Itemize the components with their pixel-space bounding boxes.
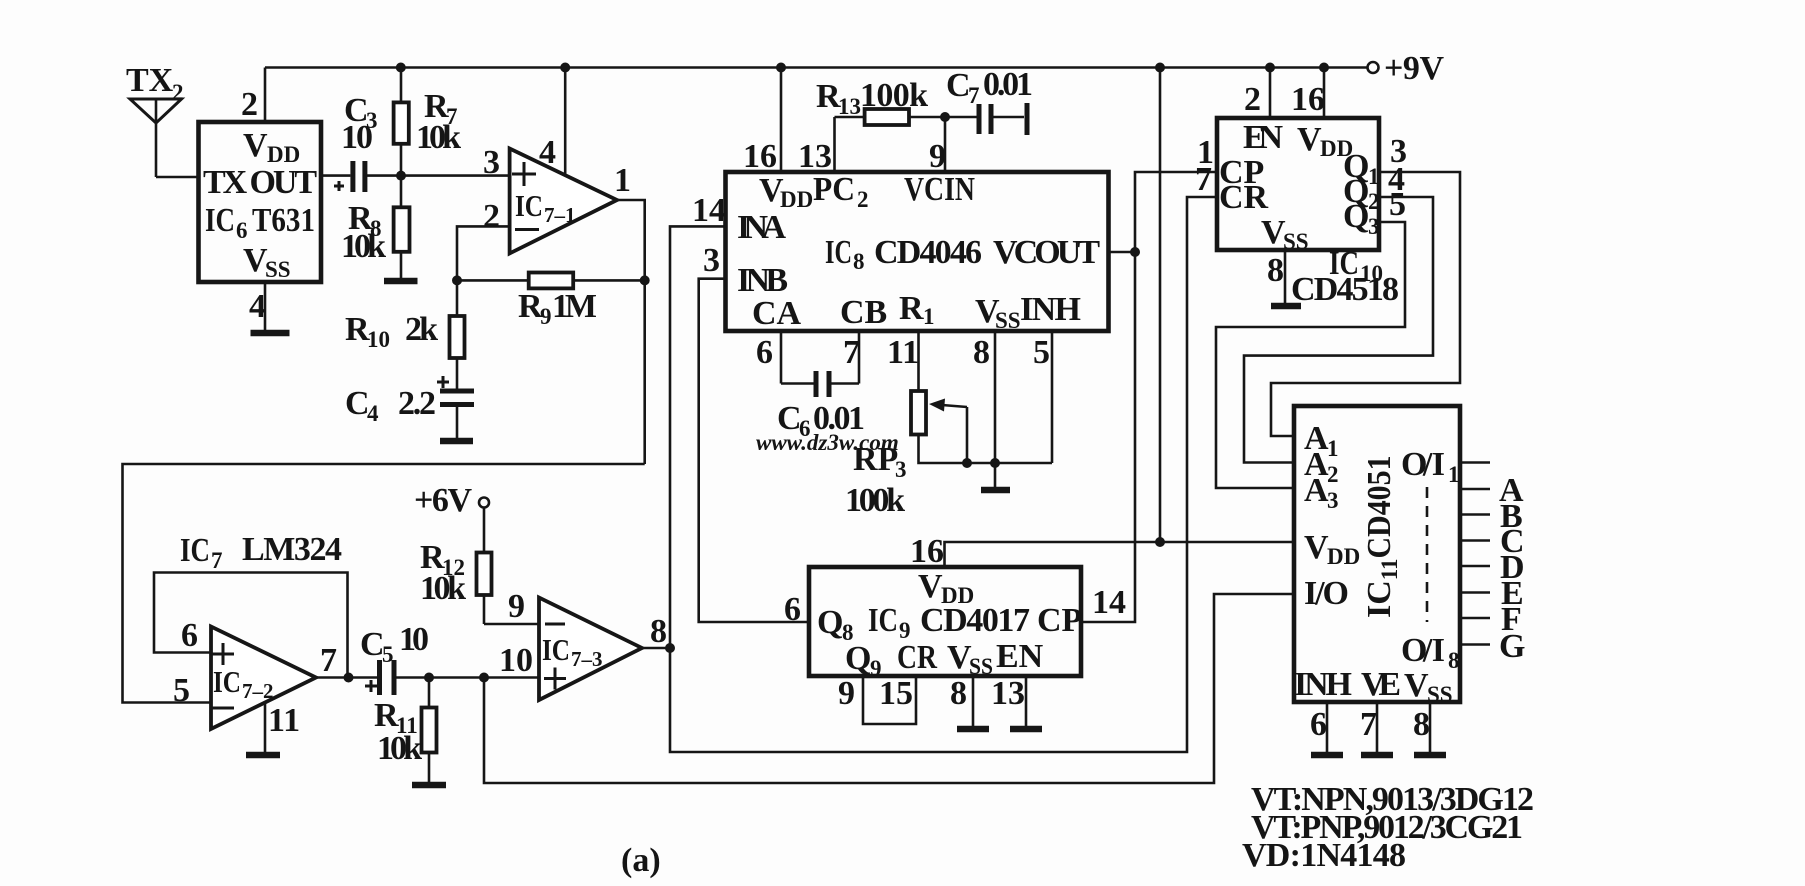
note VD: [1242, 837, 1406, 874]
label G: [1499, 628, 1525, 665]
pin stub F: [1460, 617, 1490, 620]
svg-text:11: 11: [887, 334, 919, 371]
capacitor C7: [945, 103, 1027, 135]
svg-text:7–3: 7–3: [571, 647, 603, 671]
wire pin 4 of IC7-1 to rail: [564, 68, 567, 177]
svg-text:IC: IC: [868, 602, 898, 639]
svg-text:1: 1: [1327, 436, 1339, 461]
label CB: [840, 294, 887, 331]
wire IC7-2 output to C5: [316, 676, 377, 679]
svg-text:SS: SS: [1283, 229, 1309, 254]
label O/I1: [1401, 446, 1460, 487]
wire IC11 pin 7 VE down: [1376, 702, 1379, 755]
ground under IC11 pin 6: [1311, 752, 1343, 759]
svg-text:11: 11: [268, 702, 300, 739]
resistor R7: [394, 68, 409, 176]
node H junction dot R13/C7/VCIN: [940, 112, 950, 122]
svg-text:7: 7: [1360, 706, 1377, 743]
label O/I8: [1401, 632, 1460, 673]
wire INB net: IC8 pin3 to CD4017 Q8: [699, 279, 809, 622]
svg-text:SS: SS: [265, 257, 291, 282]
label A: [1499, 472, 1524, 509]
pin number 5 (IC7-2): [173, 672, 190, 709]
wire pin 11 of IC7-2 down: [264, 703, 267, 755]
svg-text:10k: 10k: [420, 570, 466, 607]
pin number 7 (IC11): [1360, 706, 1377, 743]
svg-text:2: 2: [483, 198, 500, 235]
wire IC7-3 output: [642, 647, 670, 650]
wire Q3 to A3 of CD4051: [1216, 222, 1405, 488]
svg-text:V: V: [1297, 121, 1322, 158]
pin number 5 (IC8): [1033, 334, 1050, 371]
label E: [1501, 575, 1524, 612]
IC U6 T631 box: [199, 122, 322, 282]
svg-text:CR: CR: [1219, 179, 1269, 216]
svg-text:1: 1: [614, 162, 631, 199]
pin number 11 (IC8): [887, 334, 919, 371]
svg-text:16: 16: [1291, 81, 1325, 118]
pin number 7 (IC7-2): [320, 642, 337, 679]
wire CD4017 EN down: [1025, 676, 1028, 729]
wire R12 to IC7-3 pin 9: [484, 623, 539, 626]
ground under IC11 pin 7: [1361, 752, 1393, 759]
label VDD of IC8: [759, 172, 813, 212]
label PC2: [813, 171, 869, 212]
node J junction dot VSS: [990, 458, 1000, 468]
svg-text:CB: CB: [840, 294, 887, 331]
label D: [1500, 549, 1525, 586]
svg-text:IC: IC: [205, 202, 235, 239]
wire CD4518 VSS pin 8 down: [1284, 250, 1287, 306]
svg-text:0.01: 0.01: [983, 66, 1033, 103]
svg-text:7: 7: [320, 642, 337, 679]
ground under CD4518 pin 8: [1271, 303, 1301, 310]
svg-text:3: 3: [703, 242, 720, 279]
svg-text:8: 8: [853, 249, 865, 274]
ground under IC11 pin 8: [1414, 752, 1446, 759]
pin number 4 (IC6): [249, 288, 266, 325]
wire +9V drop to VDD net: [1159, 68, 1162, 543]
label VDD of IC10: [1297, 121, 1353, 161]
label VSS of IC6: [243, 242, 291, 282]
svg-text:7–1: 7–1: [544, 203, 576, 227]
resistor R9: [457, 273, 645, 289]
label IC9 CD4017 CP: [868, 602, 1082, 643]
ground under CD4017 EN: [1010, 726, 1042, 733]
wire Q9-CR loop: [863, 676, 916, 724]
node L junction dot VDD net: [1155, 537, 1165, 547]
resistor R8: [394, 176, 410, 281]
note VT NPN: [1251, 781, 1534, 818]
pin number 9 (IC7-3): [508, 588, 525, 625]
svg-text:2: 2: [1327, 462, 1339, 487]
wire IC8 pin 13 up: [833, 117, 836, 172]
label VSS of IC8: [975, 293, 1021, 333]
svg-text:6: 6: [756, 334, 773, 371]
svg-text:IC11CD4051: IC11CD4051: [1361, 455, 1402, 618]
label B: [1500, 498, 1523, 535]
svg-text:3: 3: [1327, 488, 1339, 513]
svg-text:www.dz3w.com: www.dz3w.com: [756, 430, 899, 455]
svg-text:8: 8: [650, 613, 667, 650]
pin number 14 (IC8): [692, 192, 726, 229]
capacitor C3: [334, 161, 365, 192]
ground under IC7-2 pin 11: [246, 752, 280, 759]
wire pin 4 of IC6 down: [264, 282, 267, 333]
node I junction dot wiper: [962, 458, 972, 468]
pin stub O/I1: [1460, 461, 1490, 464]
label IC7-3: [542, 632, 603, 671]
svg-text:5: 5: [173, 672, 190, 709]
svg-text:2k: 2k: [405, 311, 438, 348]
pin number 6 (IC11): [1310, 706, 1327, 743]
svg-text:I/O: I/O: [1304, 575, 1349, 612]
resistor R10: [450, 280, 465, 391]
IC U11 CD4051 box: [1294, 406, 1460, 702]
svg-text:10k: 10k: [377, 730, 422, 767]
svg-text:1: 1: [1448, 462, 1460, 487]
label INH of IC11: [1294, 666, 1352, 703]
svg-text:LM324: LM324: [242, 531, 342, 568]
pin number 3 (IC7-1): [483, 144, 500, 181]
wire IC8 pin 7 CB down: [858, 331, 861, 384]
junction dot rail/R7: [396, 63, 406, 73]
label VDD of IC6: [243, 127, 300, 167]
node F junction dot I/O branch: [479, 673, 489, 683]
svg-text:100k: 100k: [860, 77, 928, 114]
label A2: [1304, 446, 1339, 487]
pin number 6 (IC8): [756, 334, 773, 371]
label R1 pin: [899, 290, 935, 329]
svg-text:PC: PC: [813, 171, 855, 208]
svg-text:INA: INA: [737, 209, 786, 246]
ground under IC6 pin 4: [251, 330, 290, 337]
wire IC7-1 output feedback loop to IC7-2 pin 5: [123, 464, 645, 703]
label R9 1M: [518, 288, 597, 329]
svg-text:G: G: [1499, 628, 1525, 665]
label F: [1501, 601, 1522, 638]
svg-text:6: 6: [236, 218, 248, 243]
label IC8 CD4046 VCOUT: [825, 234, 1100, 274]
label A1: [1304, 420, 1339, 461]
pin number 2 (IC10): [1244, 81, 1261, 118]
label VDD of IC11: [1304, 529, 1360, 569]
wire CP net: CD4518 CP / VCOUT / CD4017 CP: [1081, 172, 1217, 622]
svg-text:R: R: [899, 290, 924, 327]
svg-text:IC: IC: [213, 664, 241, 699]
svg-text:1M: 1M: [552, 288, 597, 325]
svg-text:V: V: [918, 568, 943, 605]
wire pin 2 of IC7-1: [457, 226, 510, 280]
wire TX OUT to C3: [321, 174, 350, 177]
svg-text:15: 15: [879, 675, 913, 712]
note VT PNP: [1251, 809, 1523, 846]
svg-text:C: C: [360, 626, 385, 663]
svg-text:DD: DD: [1327, 544, 1360, 569]
svg-text:5: 5: [1033, 334, 1050, 371]
wire +9V supply rail: [265, 66, 1368, 69]
wire VCOUT output: [1109, 251, 1135, 254]
label RP3 100k: [845, 441, 907, 519]
label TX2: [126, 62, 184, 105]
junction dot rail/pin16: [1319, 63, 1329, 73]
label VCIN: [904, 171, 975, 208]
wire CD4017 VSS down: [972, 676, 975, 729]
dashed separator line inside IC11: [1426, 487, 1429, 622]
label Q2: [1343, 173, 1380, 214]
pin stub E: [1460, 591, 1490, 594]
label R11 10k: [374, 697, 422, 767]
svg-text:C: C: [345, 385, 370, 422]
label R12 10k: [420, 539, 466, 607]
label VE: [1361, 666, 1401, 703]
label Q3: [1343, 198, 1380, 239]
node B junction dot R9 left: [452, 275, 462, 285]
label I/O: [1304, 575, 1349, 612]
svg-text:6: 6: [181, 617, 198, 654]
svg-text:2: 2: [1244, 81, 1261, 118]
resistor R12: [477, 508, 492, 625]
svg-text:9: 9: [929, 138, 946, 175]
svg-text:V: V: [243, 127, 268, 164]
svg-text:13: 13: [991, 675, 1025, 712]
junction dot rail/pin2: [1265, 63, 1275, 73]
wire CD4518 pin 16 to rail: [1323, 68, 1326, 119]
svg-text:9: 9: [540, 304, 552, 329]
pin number 9 (IC9): [838, 675, 855, 712]
ground under R8: [384, 278, 418, 285]
junction dot rail/pin4: [560, 63, 570, 73]
svg-text:A: A: [1304, 472, 1329, 509]
pin number 4 (IC10): [1388, 161, 1405, 198]
svg-text:+6V: +6V: [414, 482, 472, 519]
label IC11CD4051 rotated: [1361, 455, 1402, 618]
IC U8 CD4046 box: [726, 172, 1109, 331]
pin number 10 (IC7-3): [499, 642, 533, 679]
svg-text:10: 10: [499, 642, 533, 679]
svg-text:Q: Q: [845, 640, 871, 677]
svg-text:16: 16: [910, 533, 944, 570]
label INB: [737, 262, 788, 299]
svg-text:V: V: [1404, 667, 1429, 704]
label VSS of IC10: [1261, 214, 1309, 254]
pin stub C: [1460, 539, 1490, 542]
wire CD4518 pin 2 to rail: [1269, 68, 1272, 119]
svg-text:DD: DD: [780, 187, 813, 212]
wire IC8 pin 11 R1 down: [917, 331, 920, 391]
pin number 8 (IC10): [1267, 252, 1284, 289]
wire IC11 pin 8 VSS down: [1429, 702, 1432, 755]
label IC7-1: [515, 188, 576, 227]
svg-text:INH: INH: [1020, 291, 1081, 328]
+6V terminal: [479, 498, 489, 508]
label Q1: [1343, 148, 1380, 189]
pin number 7 (IC8): [843, 334, 860, 371]
ground under RP3/VSS: [981, 487, 1010, 494]
pin number 1 (IC7-1): [614, 162, 631, 199]
ground under R11: [412, 782, 446, 789]
svg-text:CA: CA: [752, 295, 802, 332]
svg-text:INB: INB: [737, 262, 788, 299]
label VSS of IC11: [1404, 667, 1453, 707]
junction dot rail/+9V drop: [1155, 63, 1165, 73]
svg-text:CD4017: CD4017: [920, 602, 1030, 639]
wire IC7-1 output: [617, 200, 645, 464]
wire Q1 to A1 of CD4051: [1271, 172, 1460, 436]
svg-text:6: 6: [1310, 706, 1327, 743]
label IC10 CD4518: [1291, 245, 1399, 308]
svg-text:8: 8: [950, 675, 967, 712]
svg-text:1: 1: [1368, 164, 1380, 189]
capacitor C4 polarized: [437, 376, 474, 441]
svg-text:16: 16: [743, 138, 777, 175]
label EN of IC9: [996, 638, 1044, 675]
svg-text:EN: EN: [1243, 119, 1283, 156]
node E junction dot R11 top: [424, 673, 434, 683]
wire VDD net: CD4017 pin16 to CD4051 VDD: [945, 542, 1295, 567]
svg-text:13: 13: [798, 138, 832, 175]
label CR of IC9: [897, 639, 937, 676]
pin number 8 (IC8): [973, 334, 990, 371]
pin number 6 (IC7-2): [181, 617, 198, 654]
resistor R11: [422, 678, 437, 786]
pin number 1 (IC10): [1197, 134, 1214, 171]
label INH of IC8: [1020, 291, 1081, 328]
pin number 16 (IC8): [743, 138, 777, 175]
svg-text:C: C: [946, 67, 971, 104]
label EN of IC10: [1243, 119, 1283, 156]
svg-text:4: 4: [539, 134, 556, 171]
label R10 2k: [345, 311, 438, 352]
junction dot rail/IC8 pin16: [776, 63, 786, 73]
svg-text:14: 14: [692, 192, 726, 229]
pin number 4 (IC7-1): [539, 134, 556, 171]
svg-text:8: 8: [973, 334, 990, 371]
label Q8: [817, 604, 854, 645]
label C7 0.01: [946, 66, 1033, 108]
node D junction dot IC7-2 output: [344, 673, 354, 683]
op-amp IC7-3: [539, 598, 642, 701]
label CR of IC10: [1219, 179, 1269, 216]
svg-text:IC: IC: [542, 632, 570, 667]
pin number 16 (IC10): [1291, 81, 1325, 118]
op-amp IC7-2: [211, 627, 316, 730]
svg-text:3: 3: [483, 144, 500, 181]
svg-text:8: 8: [1267, 252, 1284, 289]
wire C5 to IC7-3 pin 10: [397, 676, 540, 679]
pin stub A: [1460, 488, 1490, 491]
svg-text:7: 7: [843, 334, 860, 371]
op-amp IC7-1: [510, 149, 617, 254]
wire IC8 pin 8 VSS down: [994, 331, 997, 490]
svg-text:3: 3: [895, 457, 907, 482]
svg-text:CP: CP: [1037, 602, 1082, 639]
svg-text:SS: SS: [995, 308, 1021, 333]
svg-text:+9V: +9V: [1384, 50, 1444, 87]
pin number 14 (IC9): [1092, 584, 1126, 621]
svg-text:7: 7: [211, 548, 223, 573]
label CP of IC10: [1219, 154, 1264, 191]
label IC7 LM324: [180, 531, 342, 573]
svg-text:10: 10: [399, 621, 429, 658]
label C5 10: [360, 621, 429, 667]
svg-text:SS: SS: [969, 654, 993, 679]
svg-text:10: 10: [367, 327, 390, 352]
wire IC11 pin 6 INH down: [1326, 702, 1329, 755]
svg-text:100k: 100k: [845, 482, 905, 519]
svg-text:10: 10: [341, 119, 373, 156]
svg-text:8: 8: [1413, 706, 1430, 743]
svg-text:5: 5: [382, 642, 394, 667]
svg-text:O/ I: O/ I: [1401, 446, 1445, 483]
svg-text:VD:1N4148: VD:1N4148: [1242, 837, 1406, 874]
svg-text:1: 1: [923, 304, 935, 329]
label VDD of IC9: [918, 568, 974, 608]
wire node A to op-amp pin 3: [401, 174, 510, 177]
+9V terminal circle: [1368, 62, 1379, 73]
label (a): [621, 842, 661, 879]
svg-text:IC: IC: [180, 532, 210, 569]
pin number 16 (IC9): [910, 533, 944, 570]
node K junction dot VCOUT: [1130, 247, 1140, 257]
wire antenna to IC6 TX OUT: [156, 176, 199, 179]
svg-text:TX: TX: [126, 62, 174, 99]
pin number 9 (IC8): [929, 138, 946, 175]
svg-text:T631: T631: [252, 202, 315, 239]
pin number 13 (IC9): [991, 675, 1025, 712]
wire INA net: IC8 pin14 / IC7-3 output / CD4518 CR: [670, 197, 1217, 752]
wire IC8 pin 6 CA down: [780, 331, 783, 384]
svg-text:EN: EN: [996, 638, 1044, 675]
pin number 8 (IC11): [1413, 706, 1430, 743]
svg-text:4: 4: [249, 288, 266, 325]
antenna TX2: [130, 99, 182, 177]
svg-text:VCOUT: VCOUT: [993, 234, 1100, 271]
svg-text:2: 2: [241, 86, 258, 123]
svg-text:7–2: 7–2: [242, 679, 274, 703]
pin number 3 (IC8): [703, 242, 720, 279]
label Q9: [845, 640, 882, 681]
wire IC8 pin 5 INH down: [1051, 331, 1054, 463]
svg-text:7: 7: [968, 83, 980, 108]
pin number 8 (IC9): [950, 675, 967, 712]
svg-text:8: 8: [1448, 648, 1460, 673]
svg-text:10k: 10k: [416, 119, 461, 156]
label VSS of IC9: [947, 639, 993, 679]
label C4 2.2: [345, 385, 436, 426]
label R7 10k: [416, 88, 461, 156]
label IC6 T631: [205, 202, 315, 243]
capacitor C6: [781, 371, 859, 397]
wire IC8 pin 9 VCIN: [944, 117, 947, 172]
wire Q2 to A2 of CD4051: [1244, 197, 1433, 463]
svg-text:13: 13: [838, 94, 861, 119]
svg-text:TX OUT: TX OUT: [203, 164, 317, 201]
svg-text:CR: CR: [897, 639, 937, 676]
svg-text:14: 14: [1092, 584, 1126, 621]
potentiometer RP3: [911, 391, 1052, 463]
svg-text:2: 2: [857, 187, 869, 212]
ground under C4: [440, 438, 473, 445]
pin number 5 (IC10): [1389, 186, 1406, 223]
label CA: [752, 295, 802, 332]
svg-text:3: 3: [1368, 214, 1380, 239]
node C junction dot R9 right / output: [640, 275, 650, 285]
label A3: [1304, 472, 1339, 513]
node A junction dot C3/R7/R8: [396, 171, 406, 181]
svg-text:Q: Q: [817, 604, 843, 641]
svg-text:7: 7: [1195, 161, 1212, 198]
